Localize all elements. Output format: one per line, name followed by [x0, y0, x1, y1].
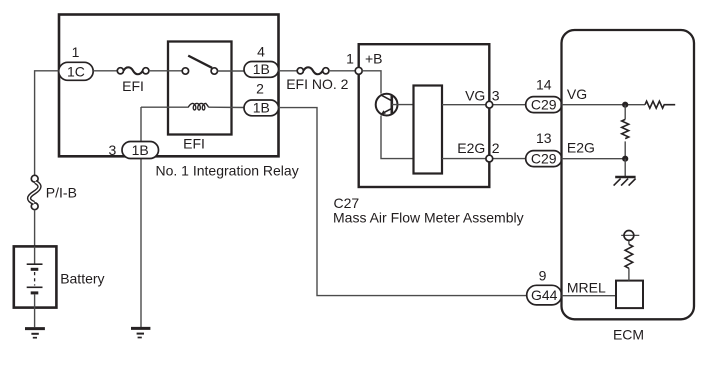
- label Mass Air Flow Meter Assembly: [333, 209, 524, 225]
- transistor Q1: [376, 94, 414, 116]
- chassis ground (ECM E2G): [614, 159, 636, 186]
- connector pill 1C: [59, 62, 93, 80]
- label EFI (relay unit): [183, 136, 205, 152]
- label No. 1 Integration Relay: [156, 162, 299, 178]
- svg-text:9: 9: [539, 267, 547, 283]
- wire relay coil to pin3 ground: [140, 107, 142, 327]
- wire VG inside ECM: [562, 104, 646, 106]
- wire P/I-B to battery: [34, 210, 36, 246]
- connector pill 1B pin 4: [244, 61, 279, 77]
- wire +B to transistor: [362, 71, 381, 94]
- label E2G (ECM): [567, 140, 595, 156]
- svg-text:MREL: MREL: [567, 280, 606, 296]
- ECM driver block: [616, 281, 643, 309]
- wire E2G row: [442, 158, 526, 160]
- node junction E2G: [622, 156, 628, 162]
- ground (battery): [25, 329, 45, 338]
- connector pill C29 pin 13: [526, 151, 562, 167]
- resistor R3 (MREL pull-up): [625, 240, 633, 280]
- wire pin4 to EFI NO.2 fuse: [279, 70, 298, 72]
- svg-text:Battery: Battery: [60, 270, 104, 286]
- fuse EFI: [117, 67, 149, 74]
- svg-text:1: 1: [346, 51, 354, 67]
- wire EFI fuse to relay contact: [149, 70, 182, 72]
- wire EFI NO.2 fuse to node 1: [329, 70, 356, 72]
- pin label 9: [539, 267, 547, 283]
- relay box (No. 1 Integration Relay outline): [59, 15, 279, 157]
- svg-text:G44: G44: [531, 287, 558, 303]
- svg-text:1B: 1B: [253, 61, 270, 77]
- label VG (ECM): [567, 86, 587, 102]
- connector pill 1B pin 3: [122, 142, 159, 159]
- svg-text:2: 2: [492, 140, 500, 156]
- MAF sensing element (rectangle): [414, 86, 443, 174]
- ECM box: [562, 30, 695, 319]
- svg-text:+B: +B: [365, 51, 383, 67]
- terminal B+ (circle with bar): [621, 231, 639, 241]
- wire transistor emitter to E2G row: [381, 116, 414, 159]
- MAF box (Mass Air Flow Meter Assembly): [359, 44, 490, 187]
- node 1 (+B terminal): [355, 67, 362, 74]
- label MREL: [567, 280, 606, 296]
- pin label 1: [346, 51, 354, 67]
- svg-text:C29: C29: [531, 97, 557, 113]
- node VG pin 3: [486, 101, 493, 108]
- svg-text:14: 14: [536, 76, 552, 92]
- label VG (MAF): [465, 88, 485, 104]
- node junction VG: [622, 102, 628, 108]
- label E2G (MAF): [457, 140, 485, 156]
- label EFI (fuse): [122, 78, 144, 94]
- relay switch contact: [182, 56, 244, 75]
- svg-text:VG: VG: [567, 86, 587, 102]
- wire 1C to battery: [35, 71, 59, 176]
- svg-text:EFI NO. 2: EFI NO. 2: [286, 76, 348, 92]
- svg-text:No. 1 Integration Relay: No. 1 Integration Relay: [156, 162, 299, 178]
- svg-text:C29: C29: [531, 151, 557, 167]
- label P/I-B: [46, 184, 77, 200]
- svg-text:1C: 1C: [67, 63, 85, 79]
- svg-text:2: 2: [256, 80, 264, 96]
- svg-text:P/I-B: P/I-B: [46, 184, 77, 200]
- resistor R1 (horizontal): [645, 101, 675, 108]
- relay coil L1: [141, 103, 244, 110]
- connector pill G44 pin 9: [527, 285, 562, 305]
- pin label 4: [257, 43, 265, 59]
- label C27: [334, 195, 360, 211]
- pin label 13: [536, 130, 552, 146]
- svg-text:1B: 1B: [253, 100, 270, 116]
- svg-text:EFI: EFI: [122, 78, 144, 94]
- node E2G pin 2: [486, 155, 493, 162]
- ground (relay pin 3): [131, 328, 150, 337]
- pin label 3: [492, 88, 500, 104]
- svg-text:EFI: EFI: [183, 136, 205, 152]
- pin label 2: [256, 80, 264, 96]
- label +B: [365, 51, 383, 67]
- fusible link P/I-B: [29, 175, 39, 209]
- connector pill 1B pin 2: [244, 100, 279, 116]
- svg-text:1: 1: [72, 44, 80, 60]
- svg-text:E2G: E2G: [457, 140, 485, 156]
- relay inner box (contact/coil unit): [168, 42, 232, 135]
- battery cell symbol: [27, 246, 43, 327]
- wire E2G inside ECM: [562, 158, 626, 160]
- pin label 14: [536, 76, 552, 92]
- pin label 2: [492, 140, 500, 156]
- label Battery: [60, 270, 104, 286]
- wire MREL inside ECM: [562, 295, 617, 297]
- svg-text:Mass Air Flow Meter Assembly: Mass Air Flow Meter Assembly: [333, 209, 524, 225]
- wire VG row: [442, 104, 526, 106]
- svg-text:13: 13: [536, 130, 552, 146]
- connector pill C29 pin 14: [526, 97, 562, 113]
- wire pin2 to G44 MREL: [279, 108, 527, 296]
- svg-text:1B: 1B: [132, 142, 149, 158]
- wire 1C to EFI fuse: [93, 70, 117, 72]
- fuse EFI NO. 2: [297, 67, 329, 74]
- svg-text:ECM: ECM: [613, 326, 644, 342]
- svg-text:3: 3: [109, 142, 117, 158]
- pin label 3: [109, 142, 117, 158]
- svg-text:E2G: E2G: [567, 140, 595, 156]
- svg-text:3: 3: [492, 88, 500, 104]
- svg-text:VG: VG: [465, 88, 485, 104]
- resistor R2 (vertical VG to E2G): [622, 105, 629, 159]
- battery box: [14, 246, 57, 307]
- label ECM: [613, 326, 644, 342]
- label EFI NO. 2: [286, 76, 348, 92]
- svg-text:4: 4: [257, 43, 265, 59]
- pin label 1: [72, 44, 80, 60]
